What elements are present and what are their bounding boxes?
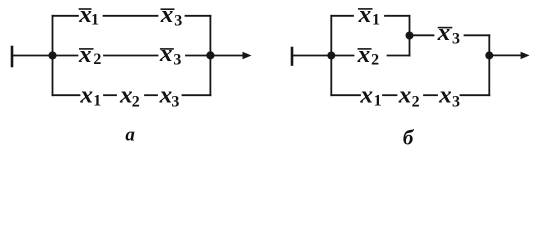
- svg-text:1: 1: [91, 12, 99, 29]
- contact x3 bottom branch circuit b: [438, 82, 460, 110]
- contact x2 bottom branch circuit b: [398, 82, 420, 110]
- wire x3 branch segment 2 circuit b: [465, 34, 490, 36]
- svg-text:2: 2: [412, 93, 420, 110]
- terminal input circuit b: [291, 48, 294, 65]
- wire middle branch segment 2 circuit a: [104, 55, 158, 57]
- wire top branch segment 1 circuit b: [331, 15, 353, 17]
- svg-text:x: x: [160, 2, 174, 28]
- wire middle branch segment 3 circuit a: [186, 55, 210, 57]
- svg-text:3: 3: [452, 31, 460, 48]
- contact x1 bottom branch circuit a: [79, 82, 101, 109]
- wire bottom branch segment 4 circuit a: [183, 94, 211, 96]
- contact x̄3 series branch circuit b: [437, 20, 460, 48]
- node right junction circuit b: [485, 51, 493, 59]
- wire input circuit b: [292, 55, 331, 57]
- wire output circuit b: [489, 54, 522, 56]
- svg-text:3: 3: [452, 93, 460, 110]
- svg-text:x: x: [78, 2, 92, 28]
- wire bottom branch segment 1 circuit a: [53, 94, 80, 96]
- node left junction circuit b: [327, 52, 335, 60]
- svg-text:x: x: [359, 82, 373, 108]
- svg-text:x: x: [159, 82, 173, 108]
- node left junction circuit a: [48, 51, 56, 59]
- contact x̄3 middle branch circuit a: [159, 41, 182, 68]
- wire bottom branch segment 1 circuit b: [331, 94, 360, 96]
- svg-text:2: 2: [93, 51, 101, 68]
- wire top branch segment 3 circuit a: [186, 15, 211, 17]
- arrow output circuit a: [243, 52, 252, 59]
- svg-text:x: x: [79, 82, 93, 108]
- wire bottom branch segment 2 circuit b: [383, 94, 397, 96]
- contact x̄1 top branch circuit b: [358, 2, 380, 29]
- svg-text:3: 3: [173, 52, 181, 69]
- wire middle branch segment 1 circuit b: [331, 55, 353, 57]
- contact x̄2 middle branch circuit b: [357, 42, 379, 69]
- wire bottom branch segment 3 circuit b: [424, 94, 437, 96]
- svg-text:3: 3: [171, 93, 179, 110]
- wire output circuit a: [210, 55, 244, 57]
- contact x1 bottom branch circuit b: [359, 82, 381, 109]
- wire left vertical circuit b: [330, 16, 332, 95]
- wire junction vertical circuit b: [409, 16, 411, 56]
- svg-text:1: 1: [374, 92, 382, 109]
- contact x2 bottom branch circuit a: [119, 82, 140, 110]
- contact x̄1 top branch circuit a: [78, 2, 99, 29]
- svg-text:2: 2: [371, 52, 379, 69]
- svg-text:x: x: [78, 42, 92, 68]
- wire right vertical circuit a: [209, 16, 211, 95]
- node right junction circuit a: [206, 51, 214, 59]
- wire top branch segment 2 circuit b: [385, 15, 410, 17]
- wire right vertical circuit b: [488, 35, 490, 95]
- wire bottom branch segment 4 circuit b: [461, 94, 490, 96]
- svg-text:x: x: [438, 82, 452, 108]
- svg-text:1: 1: [372, 12, 380, 29]
- wire left vertical circuit a: [52, 16, 54, 95]
- wire middle branch segment 1 circuit a: [53, 55, 78, 57]
- wire bottom branch segment 2 circuit a: [104, 94, 116, 96]
- wire x3 branch segment 1 circuit b: [410, 34, 434, 36]
- wire top branch segment 2 circuit a: [104, 15, 158, 17]
- contact x3 bottom branch circuit a: [159, 82, 180, 110]
- svg-text:x: x: [437, 20, 451, 46]
- svg-text:1: 1: [93, 92, 101, 109]
- svg-text:x: x: [398, 82, 412, 108]
- svg-text:x: x: [358, 2, 372, 28]
- svg-text:б: б: [403, 126, 415, 150]
- node middle junction circuit b: [406, 32, 414, 40]
- svg-text:2: 2: [132, 93, 140, 110]
- wire input circuit a: [12, 55, 53, 57]
- svg-text:x: x: [159, 41, 173, 67]
- contact x̄3 top branch circuit a: [160, 2, 183, 29]
- wire top branch segment 1 circuit a: [53, 15, 79, 17]
- svg-text:a: a: [125, 124, 135, 145]
- wire middle branch segment 2 circuit b: [388, 55, 410, 57]
- svg-text:x: x: [357, 42, 371, 68]
- svg-text:3: 3: [174, 12, 182, 29]
- svg-text:x: x: [119, 82, 133, 108]
- arrow output circuit b: [521, 52, 530, 59]
- wire bottom branch segment 3 circuit a: [145, 94, 157, 96]
- contact x̄2 middle branch circuit a: [78, 42, 101, 68]
- terminal input circuit a: [11, 47, 14, 66]
